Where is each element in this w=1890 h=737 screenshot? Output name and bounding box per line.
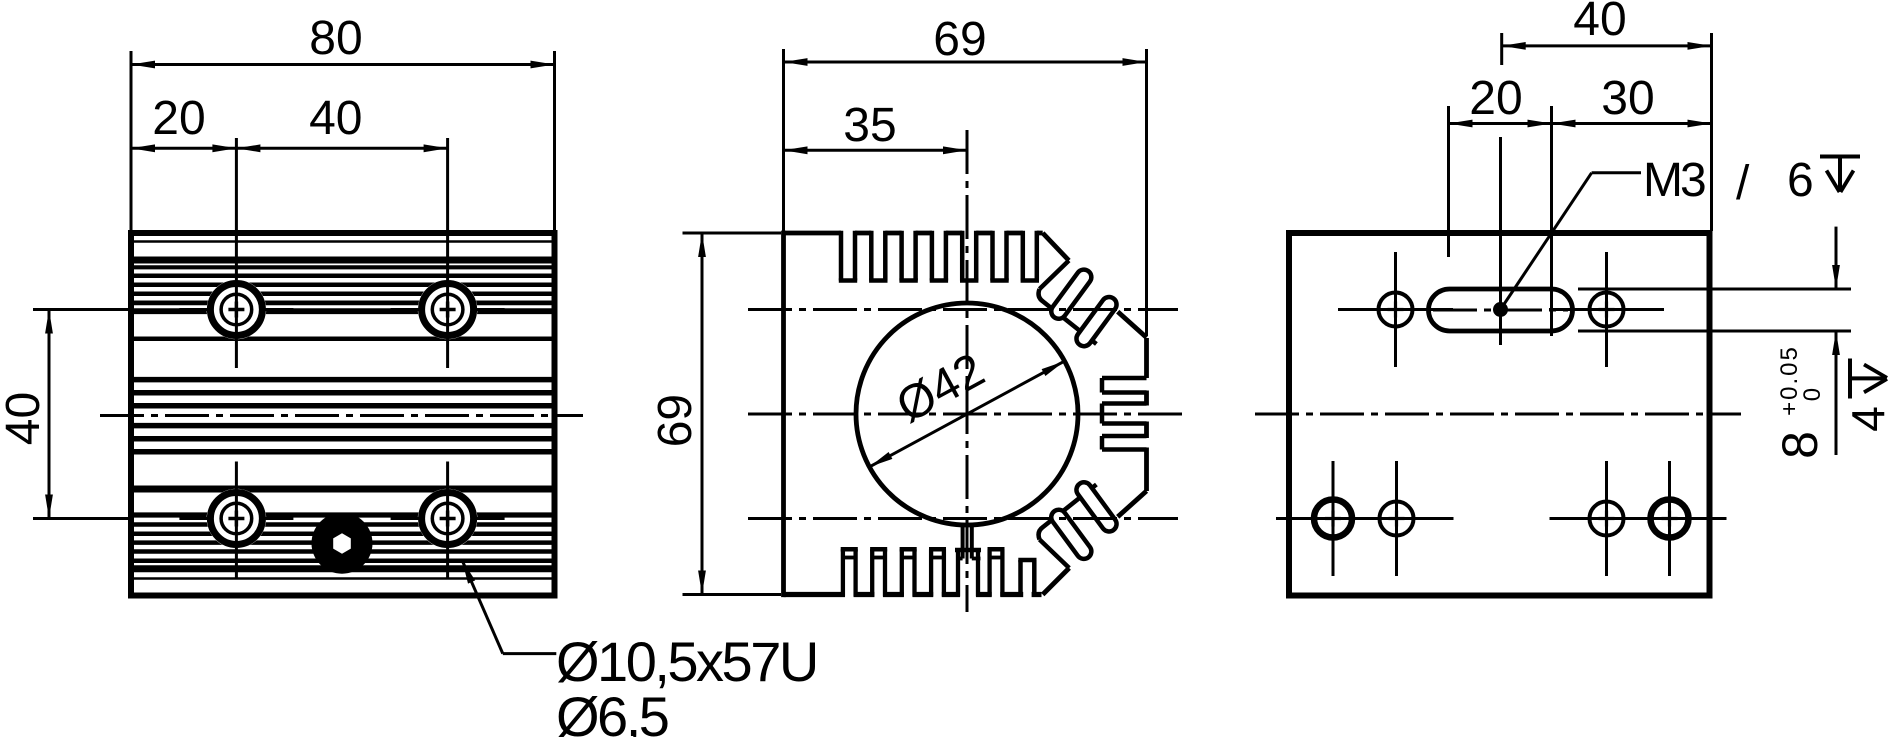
svg-text:40: 40 (1573, 0, 1626, 46)
dimension 35 (784, 149, 968, 152)
corner fin C4 (bottom-right) (1073, 479, 1119, 534)
lower-right pair horizontal centerline (1550, 517, 1727, 520)
socket head screw (black) with hex recess (312, 513, 373, 574)
top edge (784, 231, 1043, 236)
slot bottom extension line (1578, 330, 1851, 333)
hole upper-right: circle (1590, 293, 1624, 327)
depth symbol (1820, 155, 1860, 159)
hole A1: counterbore ring (210, 284, 262, 336)
bottom corner plain slot (1023, 563, 1031, 600)
leader line to hole note (462, 560, 503, 654)
right edge upper part (1144, 338, 1149, 378)
svg-text:20: 20 (152, 92, 205, 145)
svg-text:+0.05: +0.05 (1776, 345, 1803, 416)
dim text diameter 42 (888, 344, 993, 434)
hole B2: vertical centerline (446, 462, 449, 579)
bore circle diameter 42 (856, 303, 1078, 525)
hole B2: counterbore ring (422, 493, 474, 545)
left edge of profile (781, 231, 786, 597)
hole lower left: vertical centerline (1395, 461, 1398, 576)
dim 80 right extension line (553, 51, 556, 233)
hole lower left: circle (1380, 502, 1414, 536)
extension line slot left arc center (1447, 106, 1450, 257)
rib lines on front face (134, 240, 552, 243)
hole A1: clearance (white) (207, 280, 267, 340)
svg-text:40: 40 (0, 392, 50, 445)
lower-left pair horizontal centerline (1276, 517, 1454, 520)
hole lower far-right threaded: center cross (1662, 517, 1678, 520)
hole B2: center cross (440, 517, 456, 521)
hole B1: horizontal centerline stubs (179, 517, 208, 520)
dimension 69 top (784, 61, 1147, 64)
top-right corner face segment to right edge (1118, 312, 1147, 338)
svg-text:8: 8 (1772, 431, 1828, 459)
bottom T-slot 5 (987, 549, 991, 596)
hole lower right: circle (1590, 502, 1624, 536)
leader line M3 (1501, 173, 1592, 310)
svg-text:Ø10,5x57U: Ø10,5x57U (556, 630, 817, 693)
bore horizontal centerline (dash-dot) (748, 413, 1188, 416)
top cooling slot 4 (930, 231, 935, 281)
depth symbol rotated for dim 4 (1848, 359, 1852, 399)
slot horizontal centerline (1433, 309, 1568, 312)
hole A2: clearance (white) (418, 280, 478, 340)
hole upper-left: circle (1379, 293, 1413, 327)
svg-text:30: 30 (1601, 72, 1654, 125)
bottom-right chevron fin (1043, 568, 1070, 595)
hole upper-right: vertical centerline (1605, 252, 1608, 367)
top-right chevron fin (1043, 233, 1069, 261)
block outline left view (131, 233, 555, 596)
top cooling slot 5 (960, 231, 965, 281)
hole lower left: center cross (1389, 517, 1405, 520)
diameter 42 dimension line (869, 361, 1064, 467)
top cooling slot 7 (1021, 231, 1026, 281)
hole lower right: center cross (1599, 517, 1615, 520)
svg-text:69: 69 (933, 13, 986, 66)
svg-text:80: 80 (309, 12, 362, 65)
top-right corner serpentine slot wall (1039, 289, 1097, 344)
top cooling slot 3 (899, 231, 904, 281)
upper hole row centerline (dash-dot) (748, 308, 1178, 311)
top cooling slot 6 (990, 231, 995, 281)
slot top extension line (1578, 288, 1851, 291)
dim 69 left top extension line (683, 232, 782, 235)
bottom T-slot 3 (900, 549, 904, 596)
hole B1: bore circle (221, 503, 252, 534)
dim 40 left extension line (1500, 33, 1503, 65)
hole lower far-left threaded: circle (1314, 500, 1352, 538)
dimension 80 top (131, 63, 555, 66)
hole B1: clearance (white) (207, 489, 267, 549)
lower hole row centerline (dash-dot) (748, 517, 1178, 520)
bore vertical centerline (dash-dot) (966, 130, 969, 612)
svg-text:Ø6,5: Ø6,5 (556, 685, 668, 737)
hole upper-left: vertical centerline (1394, 252, 1397, 367)
dim 69 left bottom extension line (683, 593, 782, 596)
corner fin C1 (top-right) (1048, 267, 1094, 322)
hole upper-left: center cross (1388, 308, 1404, 311)
hole B1: counterbore ring (210, 493, 262, 545)
svg-text:/: / (1736, 157, 1750, 210)
dimension 69 left (701, 233, 704, 595)
corner fin C2 (top-right) (1073, 294, 1119, 349)
svg-text:69: 69 (649, 394, 702, 447)
svg-text:35: 35 (843, 99, 896, 152)
upper-right hole horizontal centerline (1549, 308, 1664, 311)
bottom T-slot 2 (870, 549, 874, 596)
bottom T-slot 1 (841, 549, 845, 596)
right edge fin 1 (1144, 391, 1149, 406)
hole A2: horizontal centerline stubs (391, 308, 420, 311)
hole lower far-left threaded: vertical centerline (1332, 461, 1335, 576)
right side slot 1 (1102, 376, 1147, 381)
top cooling slot 1 (839, 231, 844, 281)
hole A1: vertical centerline (235, 138, 238, 368)
hole A1: center cross (228, 308, 244, 312)
M3 hole vertical centerline (1499, 137, 1502, 345)
right edge lower part (1144, 448, 1149, 492)
hole lower far-left threaded: center cross (1325, 517, 1341, 520)
dimension chain 20 / 40 (131, 147, 448, 150)
svg-text:M3: M3 (1643, 154, 1705, 207)
dim 69 top right extension line (1145, 49, 1148, 336)
hole A2: center cross (440, 308, 456, 312)
bottom-right corner serpentine slot wall (1039, 485, 1097, 540)
bottom-right corner face segment to right edge (1118, 491, 1147, 517)
right side slot 2 (1102, 401, 1147, 406)
hole A1: bore circle (221, 294, 252, 325)
obround slot (1429, 289, 1573, 331)
hole lower right: vertical centerline (1605, 461, 1608, 576)
hole B1: vertical centerline (235, 462, 238, 579)
hole B2: bore circle (432, 503, 463, 534)
center T-slot merged with clamp slot (960, 552, 976, 599)
hole A2: vertical centerline (446, 138, 449, 368)
extension line bottom hole row (left) (33, 517, 128, 520)
extension line top hole row (left) (33, 308, 128, 311)
dimension 40 vertical (hole spacing) (48, 310, 51, 519)
dimension 8 vertical (1835, 227, 1838, 289)
bottom T-slot 4 (929, 549, 933, 596)
clamp slot below bore (961, 524, 965, 559)
upper-left hole horizontal centerline (1338, 308, 1453, 311)
M3 tapped hole (dot) (1493, 302, 1508, 317)
hole B2: clearance (white) (418, 489, 478, 549)
horizontal centerline right view (dash-dot) (1255, 413, 1741, 416)
right edge fin 2 (1144, 422, 1149, 439)
svg-text:6: 6 (1787, 154, 1814, 207)
hole A2: counterbore ring (422, 284, 474, 336)
hole B1: center cross (228, 517, 244, 521)
corner fin C3 (bottom-right) (1048, 507, 1094, 562)
svg-text:40: 40 (309, 92, 362, 145)
hole lower far-right threaded: vertical centerline (1668, 461, 1671, 576)
svg-text:20: 20 (1469, 72, 1522, 125)
hole A1: horizontal centerline stubs (179, 308, 208, 311)
dim 80 left extension line (130, 51, 133, 233)
dim 40 right extension line (1710, 33, 1713, 231)
dim 69 top left extension line (782, 49, 785, 231)
dimension 40 right view (1502, 44, 1712, 47)
horizontal centerline left view (dash-dot) (100, 414, 583, 417)
hole lower far-right threaded: circle (1651, 500, 1689, 538)
hole A2: bore circle (432, 294, 463, 325)
svg-text:4: 4 (1842, 406, 1890, 432)
hole upper-right: center cross (1599, 308, 1615, 311)
top cooling slot 2 (869, 231, 874, 281)
extension line slot right arc center (1550, 106, 1553, 336)
block outline right view (1289, 233, 1710, 596)
right side slot 3 (1102, 434, 1147, 439)
hole B2: horizontal centerline stubs (391, 517, 420, 520)
bottom edge (784, 592, 1042, 597)
svg-text:0: 0 (1799, 388, 1826, 401)
